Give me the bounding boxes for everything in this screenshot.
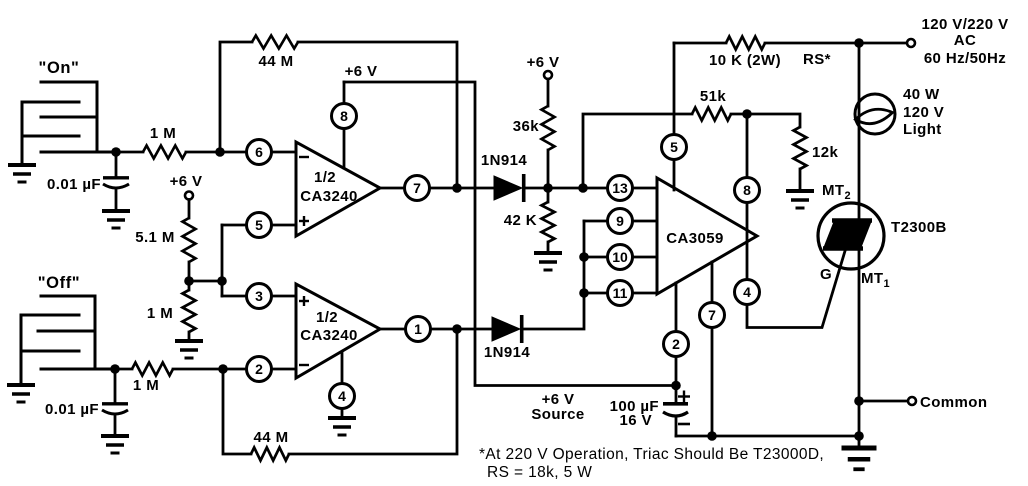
resistor R4 1 M (divider)	[147, 281, 196, 341]
pin 9 (U2)	[608, 209, 633, 234]
node J (pin 13 tap)	[578, 183, 588, 193]
node N (+6V source node)	[671, 381, 681, 391]
svg-text:1/2: 1/2	[316, 309, 338, 326]
svg-text:1 M: 1 M	[150, 125, 176, 142]
capacitor C2 0.01 uF (Off)	[45, 369, 128, 436]
svg-text:+6 V: +6 V	[527, 54, 560, 71]
op-amp U1b 1/2 CA3240 (bottom)	[296, 284, 380, 378]
wire pin 13	[583, 187, 657, 190]
wire U1b output	[380, 328, 492, 331]
capacitor C1 0.01 uF (On)	[47, 152, 129, 211]
pin 11 (U2)	[608, 281, 633, 306]
svg-text:*At 220 V Operation, Triac Sho: *At 220 V Operation, Triac Should Be T23…	[479, 446, 824, 463]
wire pin 11	[584, 292, 657, 295]
svg-text:7: 7	[708, 307, 716, 323]
wire D1 cathode	[526, 187, 584, 190]
svg-text:"Off": "Off"	[38, 274, 80, 292]
svg-text:0.01 µF: 0.01 µF	[45, 401, 99, 418]
wire 51k tap riser	[583, 114, 692, 188]
ground (42 K)	[534, 253, 562, 270]
pin 8 (U1a V+)	[332, 104, 357, 129]
svg-text:16 V: 16 V	[620, 412, 652, 429]
wire pin 10	[584, 256, 657, 259]
footnote	[479, 446, 824, 481]
node D (divider tap)	[184, 276, 194, 286]
svg-text:4: 4	[743, 284, 751, 300]
diode D2 1N914 (bottom)	[484, 315, 530, 361]
AC line terminal	[907, 16, 1008, 67]
svg-text:60 Hz/50Hz: 60 Hz/50Hz	[924, 50, 1006, 67]
wire load line	[858, 43, 861, 436]
svg-text:1: 1	[414, 321, 422, 337]
svg-text:44 M: 44 M	[259, 53, 294, 70]
capacitor C3 100 uF 16 V	[610, 386, 690, 437]
svg-text:RS = 18k, 5 W: RS = 18k, 5 W	[487, 464, 592, 481]
ground (12k)	[786, 191, 814, 208]
svg-text:Common: Common	[920, 394, 987, 411]
node H (U1b output junction)	[452, 324, 462, 334]
svg-text:1/2: 1/2	[314, 169, 336, 186]
node L (pin 11 tie)	[579, 288, 589, 298]
wire pin 8 to +6V rail	[343, 82, 346, 104]
pin 5 (U2)	[662, 135, 687, 160]
svg-text:3: 3	[255, 288, 263, 304]
wire pin 5 riser	[673, 43, 676, 190]
resistor R1 1 M (On input)	[116, 125, 220, 159]
wire pin 8 / pin 4 line	[747, 114, 845, 328]
node R (common junction)	[854, 396, 864, 406]
pin 4 (U1b V-)	[330, 384, 355, 409]
+6V supply label (U1a pin 8)	[345, 63, 378, 80]
wire pin 9	[584, 220, 657, 223]
wire pin 2 (U2)	[675, 283, 678, 386]
svg-text:4: 4	[338, 388, 346, 404]
node K (pin 10 tie)	[579, 252, 589, 262]
pin 10 (U2)	[608, 245, 633, 270]
pin 3 (U1b non-inverting input)	[247, 284, 272, 309]
resistor R6 44 M (bottom feedback)	[223, 329, 457, 461]
pin 4 (U2)	[735, 280, 760, 305]
common terminal	[859, 394, 987, 411]
svg-text:10: 10	[612, 249, 628, 265]
svg-text:"On": "On"	[39, 59, 80, 77]
svg-text:CA3059: CA3059	[666, 230, 723, 247]
svg-text:+6 V: +6 V	[345, 63, 378, 80]
svg-text:11: 11	[613, 285, 628, 301]
svg-text:+6 V: +6 V	[170, 173, 203, 190]
wire pin2	[223, 368, 296, 371]
resistor RS 10 K (2W)	[674, 37, 907, 70]
node F (Off input junction)	[110, 364, 120, 374]
node M (51k output)	[742, 109, 752, 119]
node C (U1a output junction)	[452, 183, 462, 193]
resistor R9 51k	[692, 88, 747, 121]
wire pin 8 to op-amp	[343, 129, 346, 169]
lamp 40 W 120 V Light	[855, 86, 944, 138]
svg-text:10 K (2W): 10 K (2W)	[709, 52, 781, 69]
svg-text:9: 9	[616, 213, 624, 229]
ground (U1b pin 4)	[328, 418, 356, 435]
wire pin 4 (U1b V-)	[341, 352, 344, 418]
svg-text:44 M: 44 M	[254, 429, 289, 446]
svg-text:1 M: 1 M	[133, 377, 159, 394]
+6V terminal (divider)	[170, 173, 203, 200]
pin 7 (U1a output)	[405, 176, 430, 201]
svg-text:CA3240: CA3240	[300, 188, 357, 205]
wire pin 7 (U2)	[711, 262, 714, 436]
node E (bias rail)	[217, 276, 227, 286]
wire pin3	[222, 295, 296, 298]
svg-text:7: 7	[413, 180, 421, 196]
svg-text:T2300B: T2300B	[891, 219, 947, 236]
svg-text:2: 2	[255, 361, 263, 377]
+6V terminal (36k)	[527, 54, 560, 79]
wire D2 cathode to pins 9-11 tie	[524, 221, 585, 329]
wire U1a output	[380, 187, 494, 190]
node G (pin2 junction)	[218, 364, 228, 374]
ground (main)	[842, 436, 877, 469]
triac Q1 T2300B	[818, 182, 947, 290]
wire bottom rail	[676, 435, 859, 438]
svg-text:13: 13	[612, 180, 628, 196]
wire divider tap	[189, 225, 222, 296]
touch plate "Off"	[21, 274, 115, 385]
ground (C1)	[102, 211, 130, 228]
resistor R7 36k	[513, 79, 555, 188]
svg-text:51k: 51k	[700, 88, 726, 105]
wire pin5	[222, 224, 296, 227]
svg-text:36k: 36k	[513, 118, 539, 135]
pin 6 (U1a inverting input)	[247, 140, 272, 165]
zero-crossing switch U2 CA3059	[657, 178, 757, 294]
node A (On input junction)	[111, 147, 121, 157]
pin 5 (U1a non-inverting input)	[247, 213, 272, 238]
svg-text:42 K: 42 K	[504, 212, 537, 229]
resistor R3 5.1 M	[135, 200, 195, 282]
node Q (AC hot)	[854, 38, 864, 48]
svg-text:AC: AC	[954, 32, 976, 49]
svg-text:6: 6	[255, 144, 263, 160]
resistor R10 12k	[747, 114, 838, 191]
svg-text:G: G	[820, 266, 832, 283]
ground (divider)	[175, 341, 203, 358]
wire pin6	[220, 151, 296, 154]
svg-text:5.1 M: 5.1 M	[135, 229, 175, 246]
svg-text:120 V: 120 V	[903, 104, 944, 121]
node B (pin6 junction)	[215, 147, 225, 157]
resistor R8 42 K	[504, 188, 555, 253]
pin 8 (U2)	[735, 178, 760, 203]
pin 7 (U2)	[700, 303, 725, 328]
svg-text:8: 8	[340, 108, 348, 124]
svg-text:RS*: RS*	[803, 51, 831, 68]
pin 2 (U1b inverting input)	[247, 357, 272, 382]
svg-text:8: 8	[743, 182, 751, 198]
node P (rail / ground)	[854, 431, 864, 441]
resistor R2 44 M (top feedback)	[220, 36, 457, 189]
svg-text:120 V/220 V: 120 V/220 V	[922, 16, 1009, 33]
resistor R5 1 M (Off input)	[115, 363, 223, 395]
wire +6V rail to source line	[344, 82, 676, 386]
pin 13 (U2)	[608, 176, 633, 201]
svg-text:CA3240: CA3240	[300, 327, 357, 344]
ground (On plate)	[8, 165, 36, 182]
svg-text:Light: Light	[903, 121, 942, 138]
svg-text:0.01 µF: 0.01 µF	[47, 176, 101, 193]
touch plate "On"	[22, 59, 116, 165]
pin 2 (U2)	[664, 332, 689, 357]
svg-text:5: 5	[670, 139, 678, 155]
op-amp U1a 1/2 CA3240 (top)	[296, 142, 380, 236]
ground (Off plate)	[7, 385, 35, 402]
svg-text:Source: Source	[531, 406, 584, 423]
ground (C2)	[101, 436, 129, 453]
diode D1 1N914 (top)	[481, 152, 527, 202]
svg-text:12k: 12k	[812, 144, 838, 161]
node I (36k/42K junction)	[543, 183, 553, 193]
node O (pin 7 / rail)	[707, 431, 717, 441]
+6V Source label	[531, 391, 584, 423]
pin 1 (U1b output)	[406, 317, 431, 342]
svg-text:2: 2	[672, 336, 680, 352]
svg-text:40 W: 40 W	[903, 86, 940, 103]
svg-text:1 M: 1 M	[147, 305, 173, 322]
svg-text:5: 5	[255, 217, 263, 233]
svg-text:1N914: 1N914	[481, 152, 527, 169]
svg-text:1N914: 1N914	[484, 344, 530, 361]
